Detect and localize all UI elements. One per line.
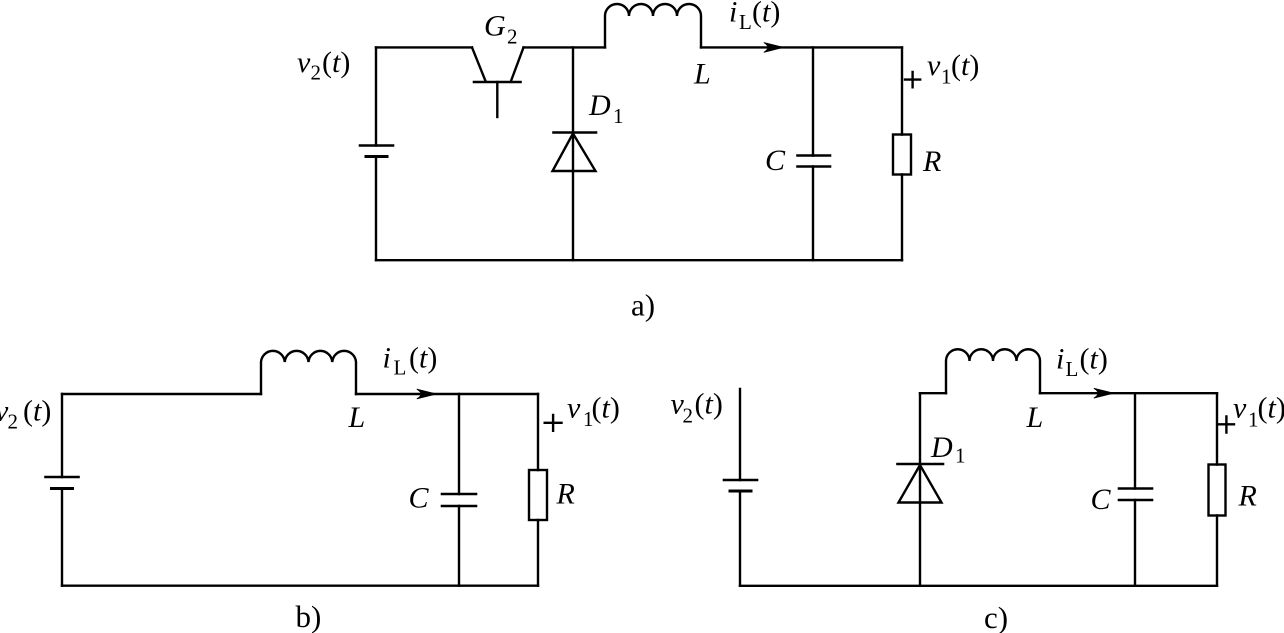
- svg-text:(t): (t): [951, 49, 979, 82]
- transistor G2 gate lead: [496, 82, 498, 117]
- svg-text:2: 2: [683, 404, 694, 428]
- svg-text:R: R: [1238, 479, 1257, 512]
- battery source v2 (c) short plate: [730, 490, 751, 493]
- svg-text:L: L: [739, 10, 752, 34]
- transistor G2 left (collector) slant: [472, 47, 486, 81]
- svg-text:v: v: [1233, 391, 1247, 424]
- wire left branch lower a: [375, 157, 377, 261]
- wire left branch lower b: [61, 489, 63, 586]
- resistor R (b) box: [529, 470, 547, 520]
- svg-text:a): a): [631, 288, 655, 323]
- svg-text:(t): (t): [592, 392, 620, 425]
- svg-text:(t): (t): [1258, 391, 1284, 424]
- wire bottom rail c: [740, 585, 1217, 587]
- svg-text:L: L: [693, 58, 711, 91]
- wire top-right segment b: [356, 393, 538, 395]
- svg-text:i: i: [729, 0, 737, 29]
- svg-text:v: v: [297, 46, 311, 79]
- diode D1 (a) cathode bar: [554, 131, 597, 134]
- inductor L (a): [605, 4, 701, 47]
- svg-text:(t): (t): [322, 46, 350, 79]
- diode D1 (c) triangle: [899, 465, 942, 503]
- wire left branch lower c: [739, 491, 741, 586]
- arrowhead iL (b): [417, 389, 437, 399]
- svg-text:1: 1: [955, 444, 966, 468]
- wire capacitor branch lower b: [458, 506, 460, 586]
- wire left branch upper a: [375, 47, 377, 145]
- wire top-right segment a (inductor to output node): [701, 46, 902, 48]
- resistor R (c) box: [1209, 465, 1226, 516]
- svg-text:v: v: [927, 49, 941, 82]
- wire diode branch c: [919, 393, 921, 586]
- wire top-left segment b: [62, 393, 261, 395]
- plus sign b: [545, 415, 562, 431]
- wire capacitor branch upper c: [1134, 393, 1136, 488]
- inductor L (c): [946, 349, 1040, 393]
- wire capacitor branch upper a: [812, 47, 814, 155]
- capacitor C (c) bottom plate: [1119, 499, 1152, 502]
- svg-text:2: 2: [311, 61, 322, 85]
- svg-text:C: C: [409, 482, 430, 515]
- wire source stub c (open at top): [739, 389, 741, 480]
- wire capacitor branch upper b: [458, 394, 460, 494]
- diode D1 (c) cathode bar: [898, 463, 944, 466]
- svg-text:b): b): [296, 599, 322, 633]
- battery source v2 (b) short plate: [52, 487, 73, 490]
- wire resistor branch lower b: [537, 520, 539, 586]
- plus sign c: [1219, 417, 1234, 433]
- wire resistor branch lower c: [1216, 516, 1218, 586]
- wire resistor branch upper b: [537, 394, 539, 470]
- svg-text:G: G: [484, 10, 506, 43]
- wire bottom rail b: [62, 585, 538, 587]
- svg-text:R: R: [556, 478, 575, 511]
- svg-text:1: 1: [613, 104, 624, 128]
- transistor G2 base bar: [474, 81, 521, 84]
- battery source v2 (a) short plate: [366, 155, 387, 158]
- transistor G2 right (emitter) slant: [511, 47, 524, 81]
- svg-text:i: i: [1056, 343, 1064, 376]
- wire diode branch a: [572, 47, 574, 260]
- svg-text:L: L: [1026, 401, 1044, 434]
- wire left branch upper b: [61, 394, 63, 477]
- arrowhead iL (c): [1094, 388, 1114, 398]
- svg-text:(t): (t): [752, 0, 780, 29]
- svg-text:L: L: [348, 401, 366, 434]
- svg-text:1: 1: [941, 65, 952, 89]
- svg-text:(t): (t): [695, 388, 723, 421]
- resistor R (a) box: [893, 135, 911, 175]
- battery source v2 (b) long plate: [46, 476, 79, 479]
- svg-text:L: L: [394, 356, 407, 380]
- wire resistor branch upper c: [1216, 393, 1218, 464]
- wire top-right segment c: [1040, 392, 1217, 394]
- svg-text:D: D: [588, 89, 611, 122]
- svg-text:(t): (t): [409, 342, 437, 375]
- wire bottom rail a: [376, 259, 902, 261]
- svg-text:L: L: [1066, 357, 1079, 381]
- capacitor C (b) bottom plate: [442, 505, 476, 508]
- wire top-left segment c (diode node to inductor): [920, 392, 946, 394]
- wire top-left segment a (source to transistor): [376, 46, 472, 48]
- capacitor C (a) bottom plate: [798, 165, 831, 168]
- svg-text:(t): (t): [1080, 343, 1108, 376]
- capacitor C (a) top plate: [798, 154, 831, 157]
- svg-text:C: C: [1091, 483, 1112, 516]
- inductor L (b): [261, 351, 356, 394]
- svg-text:i: i: [383, 342, 391, 375]
- svg-text:2: 2: [507, 25, 518, 49]
- svg-text:v: v: [567, 392, 581, 425]
- wire capacitor branch lower a: [812, 167, 814, 261]
- wire capacitor branch lower c: [1134, 500, 1136, 586]
- svg-text:(t): (t): [23, 395, 51, 428]
- battery source v2 (c) long plate: [724, 479, 757, 482]
- wire resistor branch lower a: [901, 175, 903, 261]
- battery source v2 (a) long plate: [360, 144, 393, 147]
- wire top-mid segment a (transistor to inductor, through D1 node): [524, 46, 606, 48]
- capacitor C (b) top plate: [442, 493, 476, 496]
- svg-text:D: D: [930, 431, 953, 464]
- svg-text:2: 2: [8, 410, 19, 434]
- svg-text:c): c): [984, 600, 1008, 633]
- plus sign a: [905, 72, 920, 87]
- capacitor C (c) top plate: [1119, 487, 1152, 490]
- arrowhead iL (a): [764, 43, 784, 53]
- diode D1 (a) triangle: [553, 134, 596, 172]
- svg-text:C: C: [765, 144, 786, 177]
- svg-text:R: R: [922, 145, 941, 178]
- wire resistor branch upper a: [901, 47, 903, 134]
